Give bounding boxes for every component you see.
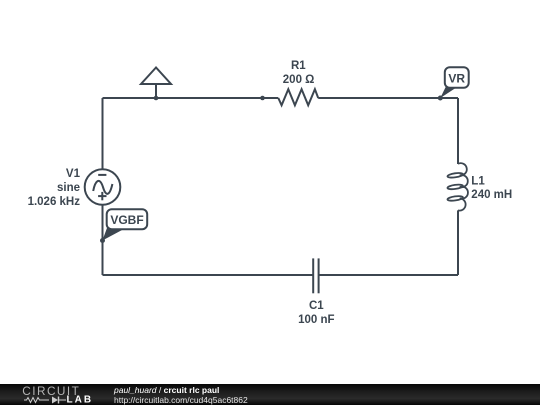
wire top left segment xyxy=(103,97,279,99)
svg-text:VGBF: VGBF xyxy=(110,213,143,227)
junction dot at VR xyxy=(438,96,443,101)
wire top right segment xyxy=(318,97,458,99)
footer url text xyxy=(114,396,248,405)
svg-text:1.026 kHz: 1.026 kHz xyxy=(28,196,81,208)
svg-text:LAB: LAB xyxy=(67,395,94,405)
wire right vertical upper xyxy=(457,98,459,164)
node flag VR xyxy=(440,67,468,98)
svg-text:240 mH: 240 mH xyxy=(471,189,512,201)
footer title text xyxy=(114,386,219,395)
svg-text:VR: VR xyxy=(448,71,465,85)
svg-text:R1: R1 xyxy=(291,60,306,72)
svg-text:V1: V1 xyxy=(66,168,81,180)
svg-text:C1: C1 xyxy=(309,300,324,312)
wire bottom left segment xyxy=(103,274,314,276)
wire right vertical lower xyxy=(457,210,459,275)
node flag VGBF xyxy=(102,209,147,240)
junction dot at antenna xyxy=(154,96,159,101)
svg-text:200 Ω: 200 Ω xyxy=(283,74,315,86)
voltage source V1 xyxy=(85,169,121,205)
junction dot before R1 xyxy=(260,96,265,101)
wire left vertical xyxy=(102,98,104,275)
wire bottom right segment xyxy=(319,274,458,276)
capacitor C1 xyxy=(313,258,318,293)
junction dot at VGBF xyxy=(100,238,105,243)
svg-text:100 nF: 100 nF xyxy=(298,314,334,326)
resistor R1 xyxy=(278,89,318,105)
ground antenna symbol xyxy=(141,68,171,99)
svg-text:sine: sine xyxy=(57,182,80,194)
footer bar xyxy=(0,384,540,405)
CircuitLab logo xyxy=(0,384,100,405)
svg-text:L1: L1 xyxy=(471,176,485,188)
inductor L1 xyxy=(447,163,468,210)
